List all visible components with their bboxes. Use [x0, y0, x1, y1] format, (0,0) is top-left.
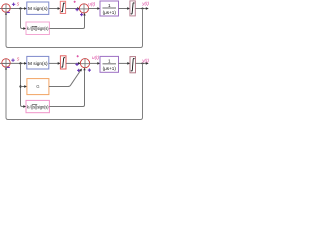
output integrator block (∫): [130, 1, 135, 16]
svg-text:1: 1: [108, 59, 111, 64]
wire: feedback loop: [6, 9, 143, 48]
svg-text:1: 1: [108, 3, 111, 8]
svg-text:s: s: [17, 57, 20, 63]
plus sign left of J2: [76, 8, 79, 11]
svg-text:M sign(s): M sign(s): [28, 6, 48, 11]
plus sign at J3 input: [11, 59, 14, 62]
block k·sqrt(|s|)·sign(s) (bottom): [26, 100, 49, 112]
plus sign left of J4: [75, 63, 78, 66]
svg-text:s: s: [17, 2, 20, 8]
wire: branch into G block: [21, 86, 27, 88]
node: G branch dot: [19, 85, 21, 87]
wire: branch down to sliding term row: [21, 9, 26, 29]
minus sign below J1: [7, 12, 10, 14]
block 1/(μs+1): [100, 1, 119, 16]
wire: M block to integrator (bottom): [49, 62, 60, 64]
background: [0, 0, 150, 122]
wire: G output diagonal into J4: [49, 70, 81, 87]
integrator block (∫) top row: [60, 1, 65, 13]
wire: J4 to plant block: [89, 62, 99, 64]
summing junction J1: [2, 4, 10, 12]
wire: branch down through G row to sliding term row: [20, 63, 22, 105]
block k·sqrt(|s|)·sign(s): [26, 22, 49, 35]
wire: plant to output integrator: [119, 8, 130, 10]
wire: J3 output to M sign(s) block: [10, 62, 26, 64]
svg-text:k√(|s|)sign(s): k√(|s|)sign(s): [27, 104, 49, 109]
block G: [27, 79, 49, 95]
node: feedback tap dot (bottom): [142, 62, 144, 64]
wire: reference input into summing junction J3: [0, 62, 10, 64]
small magenta plus above J2: [74, 1, 76, 3]
wire: J1 output to M sign(s) block: [10, 8, 26, 10]
node: branch junction dot: [19, 62, 21, 64]
svg-text:u(t): u(t): [88, 1, 95, 6]
wire: output y(t) (bottom): [136, 62, 149, 64]
block M sign(s): [27, 2, 49, 14]
small magenta plus above J4: [77, 55, 79, 57]
plus sign below-left of J4 (G input): [77, 69, 80, 72]
plus sign below-right of J4 (sliding input): [88, 69, 91, 72]
summing junction J3: [2, 59, 10, 67]
svg-text:M sign(s): M sign(s): [28, 61, 48, 66]
minus sign below J3: [7, 66, 10, 68]
block 1/(μs+1) (bottom): [100, 56, 119, 72]
svg-text:y(t): y(t): [141, 58, 149, 63]
wire: reference input into summing junction J1: [0, 8, 10, 10]
svg-text:(μs+1): (μs+1): [103, 66, 117, 71]
output integrator block (∫) bottom: [130, 57, 136, 73]
wire: integrator to summing junction J2: [66, 8, 80, 10]
summing junction J4: [80, 59, 89, 68]
wire: M block to integrator: [49, 8, 60, 10]
wire: integrator to summing junction J4: [66, 62, 80, 64]
svg-text:k√(|s|)sign(s): k√(|s|)sign(s): [27, 26, 49, 31]
wire: feedback loop (bottom): [6, 63, 143, 119]
wire: plant to output integrator (bottom): [119, 62, 130, 64]
block M sign(s) (bottom): [27, 56, 49, 69]
plus sign below J2: [80, 13, 83, 16]
node: branch junction dot: [19, 7, 21, 9]
wire: sliding term to J2 bottom input: [49, 14, 84, 29]
wire: J2 to plant block: [88, 8, 99, 10]
svg-text:y(t): y(t): [141, 1, 149, 6]
svg-text:(μs+1): (μs+1): [103, 10, 117, 15]
plus sign at J1 input: [12, 3, 15, 6]
integrator block (∫) bottom main row: [60, 56, 66, 69]
node: feedback tap dot: [142, 8, 144, 10]
svg-text:G: G: [36, 84, 39, 89]
svg-text:u(t): u(t): [92, 55, 99, 60]
wire: output y(t): [135, 8, 148, 10]
summing junction J2: [79, 4, 88, 13]
wire: sliding term to J4 bottom input: [49, 68, 84, 106]
